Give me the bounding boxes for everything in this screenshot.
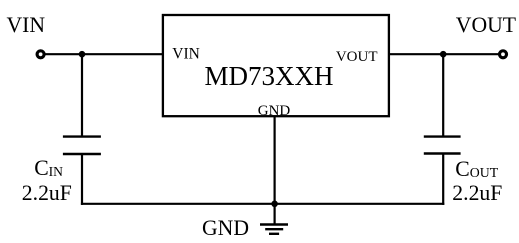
svg-text:MD73XXH: MD73XXH (205, 61, 334, 91)
capacitor C_IN bottom plate (63, 153, 101, 155)
wire C_OUT to ground bus (442, 154, 444, 205)
capacitor C_OUT bottom plate (424, 152, 461, 154)
ground bus wire (81, 203, 444, 205)
wire VOUT node down to C_OUT (442, 54, 444, 136)
capacitor C_IN top plate (63, 135, 101, 137)
svg-text:VIN: VIN (172, 46, 200, 63)
svg-text:2.2uF: 2.2uF (22, 181, 72, 205)
junction dot at VIN node (79, 51, 86, 58)
ground symbol bar 1 (260, 223, 288, 225)
wire C_IN to ground bus (81, 154, 83, 205)
svg-text:VIN: VIN (7, 13, 46, 37)
svg-text:CIN: CIN (34, 156, 63, 180)
svg-text:VOUT: VOUT (336, 49, 378, 65)
ground symbol bar 2 (265, 228, 283, 230)
terminal VIN (37, 51, 44, 58)
svg-text:2.2uF: 2.2uF (452, 181, 502, 205)
junction dot at VOUT node (440, 51, 447, 58)
wire U1 GND pin to ground bus (274, 116, 276, 204)
ground symbol bar 3 (269, 233, 279, 235)
wire stub from ground bus to ground symbol (274, 204, 276, 225)
capacitor C_OUT top plate (424, 135, 461, 137)
svg-text:GND: GND (202, 216, 249, 240)
junction dot at ground node (271, 201, 278, 208)
wire U1 VOUT pin to VOUT terminal (389, 53, 500, 55)
wire VIN node down to C_IN (81, 54, 83, 136)
wire VIN terminal to U1 VIN pin (44, 53, 163, 55)
svg-text:COUT: COUT (455, 157, 498, 181)
svg-text:VOUT: VOUT (456, 13, 516, 37)
IC U1 body (163, 15, 389, 116)
terminal VOUT (500, 51, 507, 58)
